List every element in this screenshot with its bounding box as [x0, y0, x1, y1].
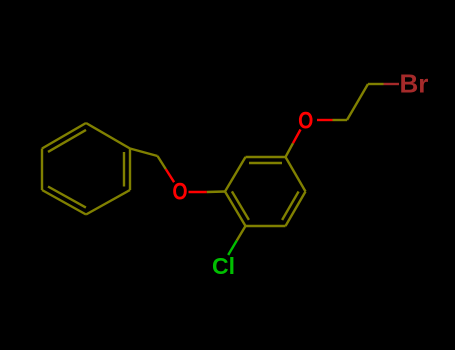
central ring bond SW-W [225, 192, 246, 227]
bond ring-O2 oxygen half [293, 130, 301, 144]
left ring bond SW-NW [41, 149, 43, 191]
bond CH2-O1 oxygen half [166, 169, 174, 182]
bond CH2-Br carbon half [368, 83, 384, 85]
bond ring-Cl carbon half [237, 226, 246, 241]
bond O1-ring oxygen half [189, 191, 207, 193]
left ring bond SE-S [86, 190, 130, 215]
bond CH2-O1 carbon half [158, 156, 166, 169]
bond O1-ring carbon half [207, 190, 225, 193]
central ring inner double bond SW-W [232, 191, 249, 220]
left ring bond NE-SE [129, 149, 131, 191]
bond ring-O2 carbon half [286, 143, 294, 157]
left ring inner double bond NE-SE [123, 152, 125, 187]
bond ring-CH2 (benzyl) [130, 149, 158, 157]
central ring bond W-NW [225, 157, 246, 192]
bond CH2-Br bromine half [384, 83, 400, 85]
svg-text:O: O [298, 106, 313, 134]
bond CH2-CH2 [347, 84, 368, 120]
left ring bond NW-N [42, 123, 86, 149]
svg-text:Br: Br [400, 69, 429, 99]
left ring inner double bond NW-N [48, 130, 86, 152]
central ring bond E-SE [286, 192, 306, 227]
central ring bond SE-SW [246, 225, 286, 227]
svg-text:O: O [172, 177, 187, 205]
left ring inner double bond S-SW [48, 187, 86, 208]
central ring inner double bond E-SE [282, 192, 299, 221]
central ring bond NE-E [286, 157, 306, 192]
bond O2-CH2 carbon half [333, 119, 348, 121]
left ring bond N-NE [86, 123, 130, 149]
central ring bond NW-NE [246, 156, 286, 158]
bond O2-CH2 oxygen half [317, 119, 333, 121]
bond ring-Cl chlorine half [228, 241, 237, 256]
central ring inner double bond NW-NE [249, 162, 282, 164]
svg-text:Cl: Cl [212, 253, 235, 279]
left ring bond S-SW [42, 190, 86, 215]
